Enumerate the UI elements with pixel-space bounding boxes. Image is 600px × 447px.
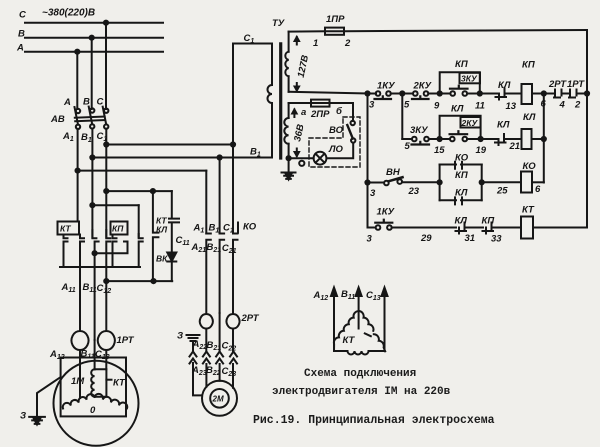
node6 vertical xyxy=(543,94,545,183)
secondary 36V loop xyxy=(288,103,290,118)
svg-text:3: 3 xyxy=(369,100,375,111)
wire drop B xyxy=(91,38,93,109)
svg-text:КП: КП xyxy=(455,170,468,181)
brake coil 1M xyxy=(91,369,94,396)
ground wire 1M xyxy=(37,377,61,416)
svg-text:а: а xyxy=(301,107,306,118)
delta winding left xyxy=(334,311,359,351)
ground transformer xyxy=(282,158,296,179)
control row 3 xyxy=(368,182,385,184)
svg-text:33: 33 xyxy=(491,234,502,245)
button 3KU (NO) row2 xyxy=(412,137,417,142)
parallel contacts KP/KL box row3 xyxy=(440,165,482,201)
rectifier VK diode xyxy=(167,253,176,262)
wire phase B1 vertical xyxy=(91,129,93,238)
svg-text:КЛ: КЛ xyxy=(497,120,510,131)
svg-text:КЛ: КЛ xyxy=(455,188,468,199)
fuse 2PR xyxy=(311,102,330,104)
fuse 1PR xyxy=(325,30,344,32)
wire drop x138.7 xyxy=(138,205,140,237)
wire C lead to 2M xyxy=(232,364,234,388)
wire 36V top to fuse 2PR xyxy=(289,102,311,104)
svg-text:2РТ: 2РТ xyxy=(548,79,567,90)
svg-text:2КУ: 2КУ xyxy=(413,81,433,92)
plug terminal xyxy=(299,161,304,166)
aux contact KP bypass row1 xyxy=(440,72,480,93)
svg-text:~380(220)В: ~380(220)В xyxy=(42,8,95,19)
button 3KU (NC) row1 xyxy=(450,91,455,96)
wire 127V top to fuse xyxy=(289,30,325,32)
svg-text:С: С xyxy=(97,97,104,108)
svg-text:3: 3 xyxy=(367,234,373,245)
breaker AV mechanical tie xyxy=(75,117,105,118)
wire 127V bottom to node3 xyxy=(289,92,368,94)
wire A lead to 2M xyxy=(205,364,207,387)
svg-text:6: 6 xyxy=(535,184,541,195)
svg-text:13: 13 xyxy=(506,101,517,112)
tap arrows 127V xyxy=(295,37,299,45)
wire phase bus B xyxy=(25,37,163,39)
svg-text:31: 31 xyxy=(465,233,476,244)
svg-text:А: А xyxy=(16,43,24,54)
lamp LO xyxy=(314,152,327,165)
KT contact bracket in motor xyxy=(95,369,107,396)
svg-text:1М: 1М xyxy=(71,376,85,387)
ground symbol 2M xyxy=(187,335,200,341)
svg-text:1КУ: 1КУ xyxy=(377,81,396,92)
contact KL row4 xyxy=(456,223,467,234)
control row 2 xyxy=(402,138,412,140)
circuit breaker AV pole A xyxy=(76,109,80,113)
wire C1 tap to transformer xyxy=(106,144,233,146)
node5 drop xyxy=(401,94,403,140)
svg-text:КП: КП xyxy=(522,60,535,71)
wire phase bus A xyxy=(25,51,163,53)
svg-text:КЛ: КЛ xyxy=(455,216,468,227)
node B tap xyxy=(90,36,94,40)
delta diagram lead B11 xyxy=(356,288,362,329)
ground lead 2M xyxy=(193,342,202,396)
svg-text:КП: КП xyxy=(112,224,124,234)
tap arrow 36V bottom xyxy=(295,149,299,157)
ground symbol 1M xyxy=(29,417,45,424)
thermal 2RT heater C xyxy=(227,314,240,329)
delta diagram lead A12 xyxy=(331,288,337,352)
svg-text:З: З xyxy=(20,411,26,422)
svg-text:6: 6 xyxy=(541,99,547,110)
svg-text:29: 29 xyxy=(420,233,432,244)
svg-text:2РТ: 2РТ xyxy=(241,313,260,324)
tap arrow 36V top xyxy=(292,110,296,118)
wire B branch y253 xyxy=(95,242,128,254)
wire VO to lamp xyxy=(327,143,354,159)
wire phase A1 vertical xyxy=(77,129,79,222)
svg-text:КО: КО xyxy=(455,153,469,164)
button 2KU (NO) row1 xyxy=(413,91,418,96)
control row 4 xyxy=(368,227,376,229)
brake branch right vertical, capacitor C11 xyxy=(169,191,179,252)
svg-text:АВ: АВ xyxy=(50,114,65,125)
svg-text:КЛ: КЛ xyxy=(523,112,536,123)
delta winding right xyxy=(359,311,386,351)
svg-text:электродвигателя IМ на 220в: электродвигателя IМ на 220в xyxy=(272,386,451,398)
svg-text:9: 9 xyxy=(434,101,440,112)
thermal 1RT heater C xyxy=(98,331,115,350)
relay coil KO xyxy=(521,172,532,193)
wire B21 lead xyxy=(219,313,221,352)
svg-text:ВН: ВН xyxy=(386,167,401,178)
svg-text:15: 15 xyxy=(434,145,445,156)
wire A11 lead xyxy=(79,243,81,331)
switch VN xyxy=(384,181,389,186)
svg-text:2КУ: 2КУ xyxy=(461,118,479,128)
thermal 2RT heater A xyxy=(200,314,213,329)
wire drop A xyxy=(76,52,78,109)
svg-text:23: 23 xyxy=(408,186,420,197)
thermal 1RT heater A xyxy=(72,331,89,350)
svg-text:1ПР: 1ПР xyxy=(326,14,345,25)
svg-text:КП: КП xyxy=(455,59,468,70)
svg-text:В: В xyxy=(18,29,25,40)
dashed enclosure VO/LO xyxy=(309,117,360,167)
wire phase bus C xyxy=(25,22,163,24)
wire B1 tap lower xyxy=(92,204,138,206)
svg-text:3: 3 xyxy=(370,188,376,199)
connector arrows 2M xyxy=(190,352,238,364)
wire C1 tap to brake branch xyxy=(106,190,172,192)
motor 1M circle xyxy=(54,361,139,446)
circuit breaker AV pole C xyxy=(104,109,108,113)
motor 1M inner leads xyxy=(79,358,81,399)
svg-text:19: 19 xyxy=(476,145,487,156)
switch VO xyxy=(351,121,355,125)
svg-text:1КУ: 1КУ xyxy=(377,207,396,218)
svg-text:ЛО: ЛО xyxy=(328,144,344,155)
svg-text:Рис.19. Принципиальная электро: Рис.19. Принципиальная электросхема xyxy=(253,414,495,427)
wire C12 lead xyxy=(105,281,107,331)
svg-text:5: 5 xyxy=(405,141,411,152)
right rail xyxy=(586,30,588,228)
svg-text:ВО: ВО xyxy=(329,125,344,136)
node A tap xyxy=(75,50,79,54)
svg-text:КЛ: КЛ xyxy=(498,80,511,91)
svg-text:С: С xyxy=(19,10,26,21)
motor 1M frame box xyxy=(61,358,126,417)
control row 1 xyxy=(368,93,377,95)
svg-text:3КУ: 3КУ xyxy=(410,125,429,136)
svg-text:5: 5 xyxy=(404,100,410,111)
svg-text:2: 2 xyxy=(574,100,581,111)
contact stubs lower row xyxy=(64,242,143,341)
svg-text:КП: КП xyxy=(482,216,495,227)
delta diagram lead C13 xyxy=(382,288,388,352)
svg-text:КО: КО xyxy=(243,222,257,233)
wire phase C1 vertical xyxy=(105,129,107,238)
stator winding garland xyxy=(63,394,95,408)
button 1KU (NO) row1 xyxy=(376,91,381,96)
svg-text:0: 0 xyxy=(90,405,96,416)
svg-text:ВК: ВК xyxy=(156,254,168,264)
node C tap xyxy=(104,21,108,25)
svg-text:КЛ: КЛ xyxy=(451,104,464,115)
wire B1 tap to transformer xyxy=(92,157,272,159)
wire lower bus y267 xyxy=(60,266,140,268)
wire drop C xyxy=(105,23,107,109)
svg-text:2М: 2М xyxy=(212,395,224,404)
contact KP row4 xyxy=(483,223,494,234)
contact KL row1 xyxy=(496,89,507,100)
transformer core xyxy=(279,44,282,158)
wire A1 tap xyxy=(78,170,207,172)
contact 1RT xyxy=(569,90,577,98)
aux contact KL bypass row2 xyxy=(440,116,481,139)
circuit breaker AV pole B xyxy=(90,108,94,112)
svg-text:КТ: КТ xyxy=(113,378,126,389)
svg-text:1РТ: 1РТ xyxy=(567,79,585,90)
svg-text:1РТ: 1РТ xyxy=(117,335,135,346)
svg-text:2ПР: 2ПР xyxy=(310,109,330,120)
relay coil KL xyxy=(522,129,532,149)
transformer TU primary loop xyxy=(233,44,272,234)
secondary 127V loop xyxy=(288,32,290,52)
contact KL row2 xyxy=(495,134,506,145)
svg-text:В: В xyxy=(83,97,90,108)
svg-text:КТ: КТ xyxy=(522,205,535,216)
brake branch left vertical with KT/KL contact xyxy=(153,191,159,281)
svg-text:КО: КО xyxy=(523,161,537,172)
svg-text:11: 11 xyxy=(475,101,485,112)
svg-text:1: 1 xyxy=(313,38,318,49)
left rail control xyxy=(367,94,369,228)
svg-text:З: З xyxy=(177,331,183,342)
relay coil KP xyxy=(522,84,533,104)
wire fuse to right rail xyxy=(344,30,587,31)
wire lamp to winding bottom xyxy=(289,157,314,159)
svg-text:21: 21 xyxy=(509,141,521,152)
wire brake bottom xyxy=(106,280,172,282)
relay coil KT xyxy=(521,217,533,239)
wire fuse 2PR to switch VO xyxy=(330,103,354,121)
svg-text:4: 4 xyxy=(559,100,566,111)
svg-text:ТУ: ТУ xyxy=(272,18,286,29)
contact stubs upper row xyxy=(64,230,143,238)
button 2KU (NC) row2 xyxy=(450,137,455,142)
contactor KP main contacts box xyxy=(111,222,128,235)
wire B11 to motor xyxy=(94,340,96,369)
svg-text:КТ: КТ xyxy=(343,335,356,346)
KO contactor feeder verticals xyxy=(205,171,207,234)
contactor KT main contacts box xyxy=(58,222,80,235)
svg-text:Схема подключения: Схема подключения xyxy=(304,368,416,380)
svg-text:КТ: КТ xyxy=(60,224,71,234)
svg-text:А: А xyxy=(63,97,71,108)
svg-text:КЛ: КЛ xyxy=(156,225,167,235)
motor 2M circle xyxy=(202,381,237,416)
delta winding base xyxy=(334,351,385,355)
button 1KU (NC) row4 xyxy=(376,225,381,230)
svg-text:2: 2 xyxy=(344,38,351,49)
wire B lead to 2M xyxy=(219,364,221,381)
contact 2RT xyxy=(551,90,562,98)
svg-text:3КУ: 3КУ xyxy=(461,74,478,84)
svg-text:25: 25 xyxy=(496,186,508,197)
KO contact breaks xyxy=(206,234,211,315)
